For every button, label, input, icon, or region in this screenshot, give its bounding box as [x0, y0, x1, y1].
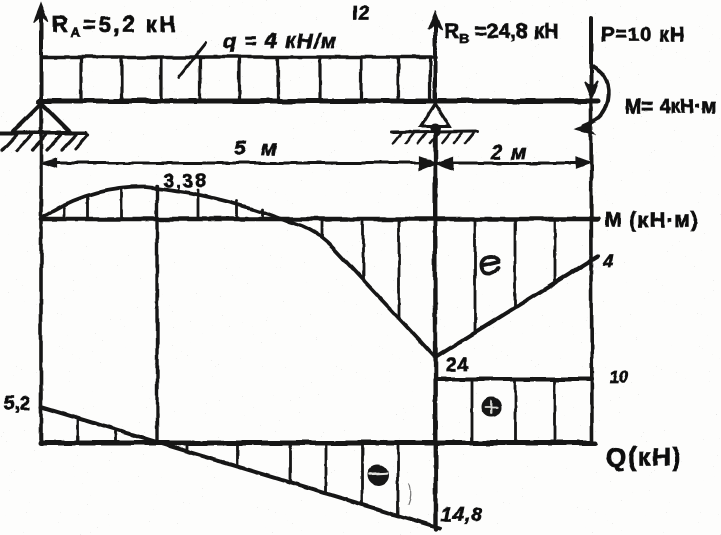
- svg-text:3,38: 3,38: [163, 171, 208, 192]
- svg-text:5,2: 5,2: [4, 394, 30, 415]
- svg-text:4: 4: [602, 252, 614, 273]
- svg-text:5 м: 5 м: [234, 137, 278, 160]
- svg-text:q = 4 кН/м: q = 4 кН/м: [223, 30, 337, 53]
- svg-text:14,8: 14,8: [441, 504, 483, 526]
- svg-text:M (кН·м): M (кН·м): [604, 209, 699, 232]
- svg-text:P=10 кН: P=10 кН: [601, 24, 685, 46]
- svg-text:M= 4кН·м: M= 4кН·м: [625, 96, 716, 118]
- svg-text:Q(кН): Q(кН): [606, 442, 683, 472]
- svg-text:10: 10: [609, 367, 628, 386]
- svg-text:2 м: 2 м: [490, 142, 527, 164]
- svg-text:24: 24: [446, 355, 469, 376]
- svg-text:I2: I2: [352, 3, 371, 25]
